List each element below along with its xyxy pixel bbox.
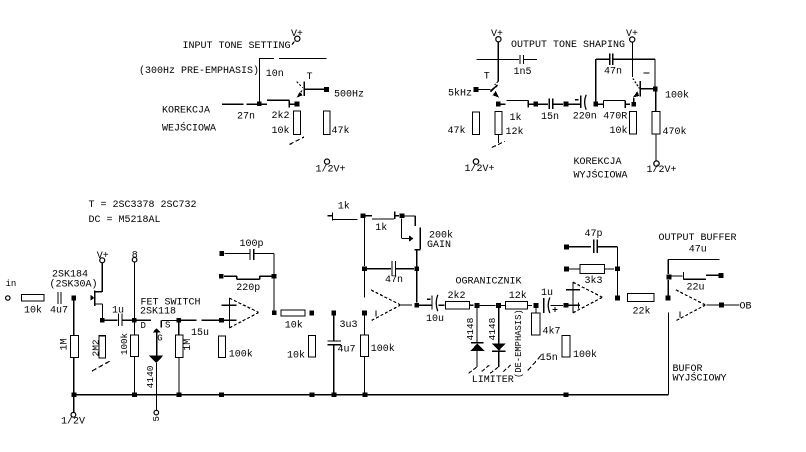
wire source down: [102, 304, 104, 318]
node rail pad 100k U1: [219, 392, 224, 397]
resistor 2k2 (jog symbol): [267, 100, 294, 107]
svg-text:OB: OB: [740, 301, 752, 312]
wire source junction right: [105, 319, 118, 321]
svg-text:3u3: 3u3: [340, 320, 358, 331]
svg-text:1/2V+: 1/2V+: [647, 164, 677, 176]
power terminal V+ (input tone): [291, 29, 303, 44]
svg-text:47n: 47n: [385, 275, 403, 286]
resistor 1k (jog symbol, emitter): [500, 100, 534, 107]
svg-text:T: T: [484, 72, 490, 83]
svg-text:47u: 47u: [689, 245, 707, 256]
wire to 12k: [501, 305, 505, 307]
svg-text:12k: 12k: [506, 126, 524, 138]
svg-text:15n: 15n: [541, 112, 559, 123]
resistor 3k3: [580, 265, 605, 274]
wire 100k U2 to rail: [364, 357, 366, 395]
node base pad of T: [324, 87, 329, 92]
svg-text:100k: 100k: [665, 90, 689, 102]
node pad 22u right: [719, 273, 724, 278]
svg-text:100k: 100k: [371, 343, 395, 355]
feedback pad 47p: [564, 245, 569, 250]
svg-text:4u7: 4u7: [338, 344, 356, 355]
svg-text:V+: V+: [97, 251, 109, 262]
wire junction up to 47n loop: [595, 59, 597, 101]
node pad before 220n: [564, 102, 569, 107]
wire U4 output: [706, 304, 719, 306]
terminal 1/2V (rail left): [61, 412, 85, 427]
svg-text:47p: 47p: [585, 229, 603, 240]
polarity plus 1u: [553, 307, 558, 312]
svg-text:1/2V+: 1/2V+: [465, 163, 495, 175]
wire 100p left: [224, 253, 249, 255]
resistor 10k (series input): [22, 295, 45, 302]
svg-text:2SK118: 2SK118: [140, 306, 176, 317]
svg-text:10n: 10n: [266, 69, 284, 80]
wire source pad down to 1M: [178, 322, 180, 335]
capacitor 47n (output tone): [610, 54, 613, 66]
wire U2 output: [401, 304, 412, 306]
resistor 12k (limiter): [506, 302, 528, 310]
node junction input-tone: [257, 102, 262, 107]
wire buffer top: [668, 259, 720, 261]
node base pad 5kHz transistor: [474, 87, 479, 92]
svg-text:100k: 100k: [119, 332, 130, 355]
node source pad FET switch: [176, 318, 181, 323]
node output pad U1: [272, 311, 277, 316]
terminal 1/2V+ (input tone): [316, 159, 346, 176]
node rail pad input: [72, 392, 77, 397]
resistor 100k (U2): [361, 335, 369, 357]
transistor T (output tone, NPN rotated): [478, 81, 499, 98]
wire elco down to rail: [333, 345, 335, 395]
svg-text:1k: 1k: [338, 200, 350, 212]
node emitter pad PNP: [632, 102, 637, 107]
capacitor 3u3/4u7 electrolytic: [328, 341, 342, 345]
svg-text:1u: 1u: [541, 288, 553, 299]
potentiometer 200k GAIN: [401, 216, 420, 266]
node pad buffer inverting: [667, 275, 672, 280]
svg-text:(DE-EMPHASIS): (DE-EMPHASIS): [514, 309, 524, 378]
svg-text:10k: 10k: [272, 125, 290, 137]
node rail pad U3 bias: [564, 392, 569, 397]
svg-text:T = 2SC3378 2SC732: T = 2SC3378 2SC732: [89, 200, 197, 211]
wire 47n corner down to base: [654, 59, 656, 86]
svg-text:S: S: [165, 321, 170, 331]
capacitor 22u (jog symbol): [672, 272, 720, 280]
svg-text:(2SK30A): (2SK30A): [50, 279, 98, 291]
wire top with 1n5 left part: [476, 59, 519, 61]
node rail pad 10k shunt: [310, 392, 315, 397]
svg-text:(300Hz PRE-EMPHASIS): (300Hz PRE-EMPHASIS): [139, 65, 259, 77]
feedback node pad 100p: [220, 251, 225, 256]
resistor 47k (input tone): [324, 111, 331, 135]
trimmer slash under 10k: [290, 137, 305, 145]
svg-text:4148: 4148: [465, 317, 476, 340]
resistor 1k (jog, pot feed left): [328, 212, 358, 220]
svg-text:1u: 1u: [112, 306, 124, 317]
svg-text:4u7: 4u7: [50, 306, 68, 317]
svg-text:15u: 15u: [191, 328, 209, 339]
wire input-tone left segment: [222, 103, 243, 105]
op-amp U1: [222, 298, 259, 328]
svg-text:3k3: 3k3: [585, 275, 603, 287]
trimmer slash under 2M2: [92, 361, 111, 372]
svg-text:in: in: [6, 279, 17, 289]
svg-text:220n: 220n: [573, 112, 597, 123]
wire 12k to pad: [528, 305, 533, 307]
transistor FET switch 2SK118 gate arrow: [153, 328, 161, 356]
wire to OB terminal: [724, 304, 739, 306]
wire elco top: [333, 315, 335, 340]
diode D1 1N4148 (up): [470, 308, 484, 367]
node source junction: [100, 318, 105, 323]
node 47n loop left pad: [362, 266, 367, 271]
break slashes under D1: [469, 365, 491, 374]
capacitor 47n (U2 feedback): [392, 261, 396, 276]
svg-text:22k: 22k: [633, 305, 651, 317]
svg-text:100p: 100p: [240, 239, 264, 250]
capacitor 220p (jog symbol): [237, 276, 272, 279]
svg-text:1/2V+: 1/2V+: [316, 164, 346, 176]
svg-text:10k: 10k: [610, 125, 628, 137]
capacitor 10u electrolytic: [432, 295, 438, 311]
wire pad down to 47n loop: [363, 218, 365, 266]
svg-text:100k: 100k: [229, 349, 253, 361]
node pad electrolytic top: [332, 311, 337, 316]
wire bottom rail: [74, 394, 669, 396]
transistor T (output tone, PNP): [633, 78, 653, 102]
node emitter pad (5kHz transistor): [496, 102, 501, 107]
svg-text:5kHz: 5kHz: [448, 88, 472, 100]
wire 47n loop left: [367, 268, 391, 270]
node pad U4 input: [666, 296, 671, 301]
svg-text:KOREKCJA: KOREKCJA: [574, 157, 622, 168]
resistor 1M (FET switch): [176, 335, 184, 358]
node diode 2 junction: [496, 303, 501, 308]
wire U2 out to 10u: [419, 304, 431, 306]
op-amp U3: [566, 282, 602, 313]
node rail pad 100k: [132, 392, 137, 397]
svg-text:470R: 470R: [603, 112, 627, 123]
wire U2 +input down to 100k: [364, 315, 366, 335]
resistor 2k2 (limiter): [446, 302, 470, 310]
capacitor 100p: [250, 249, 254, 260]
wire corner vertical to input node: [258, 59, 260, 105]
resistor 22k: [628, 294, 655, 302]
svg-text:10k: 10k: [24, 305, 42, 317]
svg-text:47n: 47n: [604, 66, 622, 77]
svg-text:D: D: [141, 321, 146, 331]
svg-text:470k: 470k: [663, 126, 687, 138]
svg-text:10k: 10k: [285, 320, 303, 332]
resistor 47k (output tone): [473, 112, 480, 135]
node pot input pad: [400, 214, 405, 219]
svg-text:47k: 47k: [448, 125, 466, 137]
wire 47n loop right: [396, 268, 414, 270]
op-amp U2: [371, 290, 400, 320]
wire inverting input vertical: [364, 271, 366, 298]
svg-text:KOREKCJA: KOREKCJA: [162, 106, 210, 117]
capacitor 1u (to U3) electrolytic: [544, 298, 550, 314]
polarity minus 10u: [427, 298, 431, 300]
wire 3k3 right: [605, 268, 615, 270]
diode D2 1N4148 (down): [492, 308, 506, 367]
svg-text:2k2: 2k2: [448, 290, 466, 302]
break slash under 4k7: [528, 356, 541, 371]
svg-text:47k: 47k: [332, 125, 350, 137]
node feedback junction U3: [615, 267, 620, 272]
power terminal V+ (output tone right): [626, 29, 638, 42]
resistor 10k (shunt): [309, 336, 316, 358]
trimmer slash under 12k: [492, 141, 505, 147]
node 47n loop right pad: [414, 266, 419, 271]
node rail pad 1M: [177, 392, 182, 397]
resistor 10k trimmer (input tone): [294, 111, 301, 135]
svg-text:1M: 1M: [183, 339, 194, 351]
wire 100p right: [254, 253, 274, 255]
svg-text:1n5: 1n5: [514, 67, 532, 78]
wire pad to 220n: [568, 103, 579, 105]
node output pad U2: [414, 303, 419, 308]
op-amp U4 output buffer: [676, 290, 705, 321]
capacitor 47p: [594, 240, 598, 254]
svg-text:GAIN: GAIN: [427, 240, 451, 251]
capacitor 1n5: [520, 55, 524, 64]
wire feedback vertical: [273, 254, 275, 313]
node output pad U3: [615, 296, 620, 301]
capacitor 27n (series gap): [246, 103, 266, 105]
wire loop right vertical: [416, 271, 418, 303]
wire top with 1n5 right part: [524, 59, 537, 61]
node diode 1 junction: [475, 303, 480, 308]
svg-text:10k: 10k: [287, 349, 305, 361]
break slashes under D2: [490, 365, 511, 374]
wire 100k down to rail: [134, 357, 136, 395]
power terminal V+ (output tone left): [491, 29, 503, 42]
wire 47p left: [569, 246, 591, 248]
node base pad PNP: [653, 87, 658, 92]
transistor T (input tone, NPN): [296, 81, 323, 98]
node emitter/divider pad: [295, 102, 300, 107]
terminal input circle: [6, 296, 10, 300]
svg-text:2M2: 2M2: [90, 339, 101, 356]
svg-text:1k: 1k: [510, 112, 522, 124]
resistor 10k (output tone right): [630, 112, 637, 135]
svg-text:500Hz: 500Hz: [334, 90, 364, 101]
wire between diode nodes: [480, 305, 496, 307]
wire 2k2 to diode node: [470, 304, 474, 306]
capacitor 15n: [549, 98, 552, 109]
wire gate pad down to 1M: [73, 300, 75, 336]
capacitor 1u (to FET switch): [118, 314, 122, 327]
wire source bracket of FET switch: [161, 320, 176, 327]
svg-text:WEJŚCIOWA: WEJŚCIOWA: [162, 121, 216, 135]
svg-text:1/2V: 1/2V: [61, 416, 85, 428]
wire top rail input-tone left of 10n: [259, 58, 274, 60]
node pad between 1k jogs: [361, 213, 366, 218]
resistor 1M (input bias): [71, 336, 79, 358]
resistor 2M2 (source): [99, 336, 106, 358]
wire 47n loop left: [596, 58, 610, 60]
svg-text:15n: 15n: [540, 353, 558, 364]
feedback node pad upper: [219, 274, 224, 279]
resistor 100k (U1 input shunt): [219, 336, 226, 358]
resistor 470k: [652, 112, 660, 135]
wire junction to FET switch drain: [137, 319, 152, 321]
wire source pad to 15u: [181, 319, 197, 321]
power terminal V+ (FET1 drain): [97, 251, 109, 263]
terminal 1/2V+ (output tone right): [647, 161, 677, 176]
svg-text:4140: 4140: [145, 365, 156, 388]
wire feedback upper: [224, 275, 237, 277]
wire 10u to 2k2: [439, 304, 445, 306]
wire buffer top corner down: [667, 260, 669, 275]
node pad before 15n: [534, 102, 539, 107]
wire base pad down to 470k: [655, 92, 657, 112]
wire rail stub to terminal: [73, 395, 75, 413]
wire 1M FET switch to rail: [178, 358, 180, 395]
node pad on inverting lead: [219, 318, 224, 323]
terminal pin 5 circle: [154, 410, 159, 415]
terminal 1/2V+ (output tone left): [465, 159, 495, 175]
svg-text:27n: 27n: [237, 112, 255, 123]
svg-text:WYJŚCIOWA: WYJŚCIOWA: [574, 168, 628, 182]
wire pin8 down to junction: [133, 262, 135, 318]
svg-text:1M: 1M: [59, 338, 70, 350]
svg-text:OGRANICZNIK: OGRANICZNIK: [456, 277, 522, 288]
svg-text:V+: V+: [291, 29, 303, 40]
node gate pad FET1: [72, 296, 77, 301]
wire pad to 4k7: [535, 308, 537, 313]
svg-text:2k2: 2k2: [272, 110, 290, 122]
capacitor 10n (gap in top wire): [279, 58, 327, 60]
capacitor 4u7 (input coupling): [58, 292, 61, 304]
wire 1u to junction: [122, 319, 132, 321]
node junction 220n/470R/feedback: [593, 102, 598, 107]
svg-text:V+: V+: [626, 29, 638, 40]
svg-text:5: 5: [152, 416, 162, 421]
polarity minus label (PNP stage): [644, 72, 650, 74]
svg-text:DC = M5218AL: DC = M5218AL: [89, 215, 161, 226]
wire 12k down: [497, 135, 499, 143]
node rail pad 100k U2: [363, 392, 368, 397]
svg-text:220p: 220p: [236, 283, 260, 294]
node pad after 10k: [309, 311, 314, 316]
wire 47n loop right: [613, 58, 655, 60]
wire drain up to V+: [101, 263, 103, 292]
node noninverting pad U2: [362, 311, 367, 316]
wire V+ down to transistor collector: [497, 42, 499, 82]
svg-text:100k: 100k: [573, 349, 597, 361]
wire to 15n: [538, 103, 548, 105]
svg-text:G: G: [157, 334, 162, 344]
transistor FET1 2SK184: [90, 290, 102, 305]
wire U4 lower input down: [668, 313, 670, 395]
wire V+ right down: [632, 42, 634, 77]
svg-text:OUTPUT BUFFER: OUTPUT BUFFER: [659, 233, 737, 244]
wire 470k down to terminal: [655, 134, 657, 160]
svg-text:WYJŚCIOWY: WYJŚCIOWY: [673, 370, 727, 384]
wire junction D down to 100k: [133, 322, 135, 335]
node feedback junction: [272, 274, 277, 279]
svg-text:1k: 1k: [375, 222, 387, 234]
node U3 +input pad: [564, 303, 569, 308]
wire inverting down: [667, 280, 669, 296]
wire feedback vertical U3: [617, 247, 619, 296]
wire 15n to pad: [553, 103, 563, 105]
wire 1M down to rail: [73, 358, 75, 395]
node junction D: [132, 318, 137, 323]
node rail pad elco: [332, 392, 337, 397]
svg-text:OUTPUT TONE SHAPING: OUTPUT TONE SHAPING: [511, 40, 625, 51]
signal arrow down (gate drive): [149, 356, 163, 411]
terminal 8 (op-amp supply pin): [132, 250, 138, 262]
resistor 100k (under FET switch): [131, 335, 139, 357]
svg-text:4148: 4148: [487, 317, 498, 340]
feedback pad 3k3: [564, 267, 569, 272]
svg-text:LIMITER: LIMITER: [472, 375, 514, 386]
polarity minus of 220n: [575, 99, 579, 101]
capacitor 220n (polarized): [581, 95, 586, 110]
wire 47p right: [598, 246, 618, 248]
capacitor 15u (series gap): [202, 319, 220, 321]
svg-text:22u: 22u: [687, 283, 705, 294]
resistor 10k (U1 output): [281, 310, 305, 316]
wire 3k3 left: [569, 268, 580, 270]
svg-text:T: T: [307, 72, 313, 83]
resistor 4k7: [532, 313, 541, 335]
wire 1u to U3 pad: [551, 304, 563, 306]
resistor 100k (U3 bias): [562, 336, 570, 358]
node pad after 12k: [534, 303, 539, 308]
node output pad: [719, 303, 724, 308]
svg-text:4k7: 4k7: [543, 325, 561, 337]
resistor 12k (output tone): [495, 112, 502, 135]
svg-text:10u: 10u: [426, 314, 444, 325]
svg-text:INPUT TONE SETTING: INPUT TONE SETTING: [183, 41, 291, 52]
resistor 470R (jog with two bars): [598, 100, 630, 108]
resistor 1k (jog, right): [366, 212, 400, 220]
svg-text:12k: 12k: [509, 290, 527, 302]
